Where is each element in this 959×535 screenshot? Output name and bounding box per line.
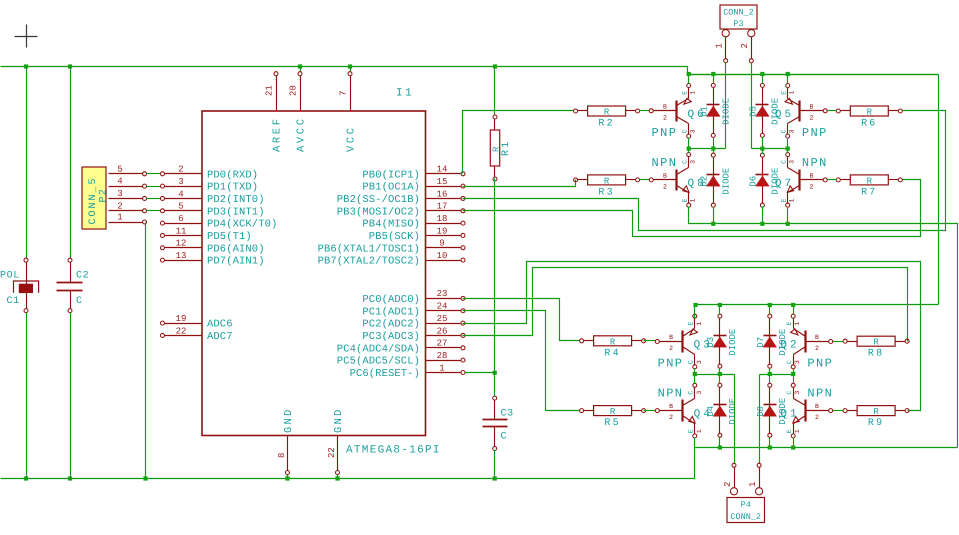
svg-text:3: 3	[690, 160, 697, 164]
svg-text:PB0(ICP1): PB0(ICP1)	[362, 169, 420, 181]
pin 13 of I1 (PD7(AIN1))	[161, 251, 265, 268]
resistor R1	[490, 115, 512, 181]
pin 23 of I1 (PC0(ADC0))	[362, 289, 465, 306]
junction VCC rail at R1	[493, 64, 497, 68]
svg-text:AVCC: AVCC	[296, 116, 308, 152]
svg-text:26: 26	[437, 326, 448, 336]
svg-text:R: R	[610, 337, 616, 347]
wire VCC to R1	[494, 67, 496, 115]
connector P3 (CONN_2)	[720, 5, 757, 29]
svg-text:R: R	[604, 176, 610, 186]
svg-text:PC3(ADC3): PC3(ADC3)	[362, 331, 420, 343]
svg-text:6: 6	[178, 214, 183, 224]
junction lower top rail D7	[768, 303, 772, 307]
diode D8	[756, 383, 788, 437]
junction bottom rail Q7	[786, 222, 790, 226]
svg-text:2: 2	[669, 414, 673, 421]
svg-text:NPN: NPN	[658, 387, 684, 401]
svg-text:13: 13	[176, 251, 187, 261]
wire lower mid rail right (node OUT-D)	[760, 374, 794, 376]
svg-text:3: 3	[117, 189, 122, 199]
svg-text:D2: D2	[699, 176, 709, 187]
pin 22 of I1 (ADC7)	[161, 326, 233, 343]
svg-text:PB6(XTAL1/TOSC1): PB6(XTAL1/TOSC1)	[318, 243, 420, 255]
svg-text:POL: POL	[0, 271, 20, 282]
svg-text:C2: C2	[76, 271, 89, 282]
wire C1 column	[26, 67, 28, 259]
svg-text:19: 19	[176, 314, 187, 324]
svg-text:R: R	[491, 146, 501, 152]
pin 28 of I1 (PC5(ADC5/SCL))	[337, 351, 465, 368]
svg-text:1: 1	[439, 363, 444, 373]
svg-text:22: 22	[176, 326, 187, 336]
svg-text:B: B	[669, 334, 673, 341]
wire D5 top stub	[762, 75, 764, 84]
junction R1/RESET	[493, 371, 497, 375]
svg-text:2: 2	[663, 114, 667, 121]
pin 24 of I1 (PC1(ADC1))	[362, 302, 465, 319]
svg-text:R: R	[873, 407, 879, 417]
svg-text:1: 1	[690, 91, 697, 95]
pin 5 of I1 (PD3(INT1))	[161, 202, 265, 219]
resistor R2	[574, 106, 640, 130]
svg-text:C: C	[688, 360, 695, 364]
svg-text:CONN_2: CONN_2	[723, 8, 754, 18]
svg-text:1: 1	[794, 322, 801, 326]
wire R3 to Q8 base	[640, 179, 650, 181]
svg-text:5: 5	[178, 202, 183, 212]
svg-text:B: B	[809, 103, 813, 110]
wire VCC right vertical to lower bridge	[938, 75, 940, 305]
svg-text:4: 4	[117, 177, 122, 187]
svg-text:NPN: NPN	[802, 156, 828, 170]
pin 16 of I1 (PB2(SS-/OC1B))	[337, 189, 465, 206]
pin 3 of P2	[109, 189, 147, 201]
wire Q2 emitter stub	[793, 305, 795, 315]
svg-text:E: E	[688, 322, 695, 326]
wire Q8 collector stub	[688, 149, 690, 153]
svg-text:E: E	[688, 429, 695, 433]
svg-text:1: 1	[690, 199, 697, 203]
svg-text:1: 1	[789, 199, 796, 203]
junction top rail Q6	[687, 72, 691, 76]
svg-text:R7: R7	[861, 187, 877, 198]
wire Q2 collector stub	[793, 369, 795, 375]
junction lower top rail Q2	[791, 303, 795, 307]
wire PC2 to R9 (long)	[463, 262, 921, 411]
wire PC3 to R8 (long)	[463, 268, 908, 342]
junction GND at P2 pin1 wire	[143, 476, 147, 480]
wire D1-D2 stubs	[713, 138, 715, 154]
pin 19 of I1 (PB5(SCK))	[369, 226, 465, 243]
svg-text:7: 7	[339, 91, 349, 96]
svg-text:R6: R6	[861, 119, 877, 130]
svg-text:1: 1	[117, 213, 122, 223]
junction lower bottom rail D4	[718, 445, 722, 449]
svg-text:R8: R8	[868, 349, 884, 360]
svg-text:DIODE: DIODE	[721, 168, 731, 195]
svg-text:CONN_2: CONN_2	[730, 512, 761, 522]
pin 20 of I1 (AVCC)	[289, 72, 308, 152]
svg-text:28: 28	[437, 351, 448, 361]
op-amp U1 IC I1 ATMEGA8-16PI body	[202, 88, 441, 457]
transistor Q5 (PNP)	[775, 84, 828, 140]
svg-text:DIODE: DIODE	[770, 98, 780, 125]
wire PB1 to R3	[463, 180, 576, 187]
pin 1 of I1 (PC6(RESET-))	[350, 363, 465, 380]
wire R9 to Q1 base	[833, 410, 844, 412]
wire upper mid rail left (node OUT-A)	[688, 148, 726, 150]
svg-text:DIODE: DIODE	[728, 329, 738, 356]
svg-text:PD5(T1): PD5(T1)	[207, 231, 252, 243]
pin 1 of P3	[715, 30, 730, 63]
pin 2 of P4	[723, 463, 738, 495]
svg-text:D7: D7	[756, 337, 766, 348]
wire VCC top rail	[1, 67, 939, 75]
wire lower bridge top rail	[695, 305, 939, 319]
svg-text:4: 4	[178, 189, 183, 199]
wire GND bottom rail	[1, 448, 695, 479]
pin 2 of P2	[109, 201, 147, 213]
wire R5 to Q4 base	[644, 410, 656, 412]
wire P2 pin1 to GND	[145, 223, 147, 479]
pin 8 of I1 (GND)	[277, 407, 295, 474]
svg-text:D1: D1	[699, 106, 709, 117]
svg-text:2: 2	[815, 414, 819, 421]
pin 6 of I1 (PD4(XCK/T0))	[161, 214, 278, 231]
svg-text:DIODE: DIODE	[778, 329, 788, 356]
wire Q6 emitter stub	[688, 75, 690, 84]
svg-text:2: 2	[809, 114, 813, 121]
junction lower mid rail collectors right	[791, 372, 795, 376]
junction VCC rail at C1	[24, 64, 28, 68]
svg-text:R: R	[873, 338, 879, 348]
svg-text:PB4(MISO): PB4(MISO)	[362, 219, 420, 231]
svg-text:3: 3	[178, 177, 183, 187]
diode D5	[748, 83, 780, 137]
svg-text:21: 21	[265, 85, 275, 96]
svg-text:25: 25	[437, 314, 448, 324]
wire P3 pin1 to OUT-A	[725, 63, 727, 149]
svg-text:3: 3	[794, 360, 801, 364]
wire R1 to RESET net	[494, 179, 496, 397]
svg-text:22: 22	[327, 447, 337, 458]
svg-text:P2: P2	[99, 188, 110, 202]
transistor Q8 (NPN)	[649, 153, 707, 208]
wire Q7 collector stub	[787, 149, 789, 153]
wire D6 bottom stub	[762, 207, 764, 224]
wire D7 top stub	[769, 305, 771, 315]
svg-text:17: 17	[437, 202, 448, 212]
svg-text:R2: R2	[598, 119, 614, 130]
svg-text:PB1(OC1A): PB1(OC1A)	[362, 182, 420, 194]
svg-text:ADC7: ADC7	[207, 331, 233, 343]
wire D1 top stub	[713, 75, 715, 84]
svg-text:12: 12	[176, 239, 187, 249]
pin 9 of I1 (PB6(XTAL1/TOSC1))	[318, 239, 465, 256]
svg-text:16: 16	[437, 189, 448, 199]
pin 18 of I1 (PB4(MISO))	[362, 214, 465, 231]
pin 17 of I1 (PB3(MOSI/OC2))	[337, 202, 465, 219]
svg-text:PD2(INT0): PD2(INT0)	[207, 194, 265, 206]
transistor Q6 (PNP)	[649, 84, 707, 140]
svg-text:3: 3	[696, 391, 703, 395]
pin 11 of I1 (PD5(T1))	[161, 226, 252, 243]
svg-text:D8: D8	[756, 406, 766, 417]
svg-text:23: 23	[437, 289, 448, 299]
wire D3-D4 stubs	[719, 369, 721, 384]
svg-text:R: R	[610, 407, 616, 417]
svg-text:27: 27	[437, 339, 448, 349]
pin 3 of I1 (PD1(TXD))	[161, 177, 259, 194]
svg-text:3: 3	[696, 360, 703, 364]
svg-text:PC6(RESET-): PC6(RESET-)	[350, 368, 420, 380]
svg-text:CONN_5: CONN_5	[88, 176, 99, 224]
wire PB2 to R6 (long)	[463, 111, 946, 231]
pin 5 of P2	[109, 164, 147, 176]
junction lower top rail D3	[718, 303, 722, 307]
svg-text:1: 1	[794, 429, 801, 433]
svg-text:1: 1	[715, 43, 725, 48]
svg-text:PB2(SS-/OC1B): PB2(SS-/OC1B)	[337, 194, 420, 206]
svg-text:PC0(ADC0): PC0(ADC0)	[362, 294, 420, 306]
junction lower bottom rail Q1	[791, 445, 795, 449]
pin 12 of I1 (PD6(AIN0))	[161, 239, 265, 256]
diode D6	[748, 153, 780, 207]
wire PB0 to R2	[463, 111, 574, 174]
wire P3 pin2 to OUT-B	[751, 63, 753, 149]
wire lower mid rail left (node OUT-C)	[695, 375, 735, 464]
svg-text:11: 11	[176, 226, 187, 236]
wire D3 top stub	[719, 305, 721, 315]
svg-text:2: 2	[178, 165, 183, 175]
svg-text:18: 18	[437, 214, 448, 224]
wire PC0 to R4	[463, 299, 580, 341]
svg-text:PNP: PNP	[658, 357, 684, 371]
svg-text:PC2(ADC2): PC2(ADC2)	[362, 319, 420, 331]
svg-text:PD7(AIN1): PD7(AIN1)	[207, 256, 265, 268]
pin 2 of P3	[740, 30, 755, 63]
pin 21 of I1 (AREF)	[265, 72, 284, 152]
diode D2	[699, 153, 731, 207]
junction top rail D5	[760, 72, 764, 76]
transistor Q1 (NPN)	[780, 383, 833, 438]
wire Q5 collector stub	[787, 138, 789, 149]
svg-text:PD1(TXD): PD1(TXD)	[207, 182, 258, 194]
wire PB3 to R7 (long)	[463, 180, 921, 237]
pin 26 of I1 (PC3(ADC3))	[362, 326, 465, 343]
svg-text:C: C	[781, 160, 788, 164]
svg-text:PB7(XTAL2/TOSC2): PB7(XTAL2/TOSC2)	[318, 256, 420, 268]
resistor R3	[574, 175, 640, 199]
svg-text:E: E	[781, 91, 788, 95]
svg-text:19: 19	[437, 226, 448, 236]
svg-text:D6: D6	[748, 176, 758, 187]
pin 27 of I1 (PC4(ADC4/SDA))	[337, 339, 465, 356]
svg-text:1: 1	[696, 429, 703, 433]
svg-text:E: E	[781, 199, 788, 203]
diode D7	[756, 314, 788, 368]
svg-text:C: C	[76, 296, 83, 307]
svg-text:PB5(SCK): PB5(SCK)	[369, 231, 420, 243]
junction VCC rail at AVCC	[298, 64, 302, 68]
sheet origin crosshair	[15, 25, 38, 48]
svg-text:VCC: VCC	[346, 125, 358, 152]
svg-text:E: E	[786, 429, 793, 433]
junction VCC rail at C2	[68, 64, 72, 68]
transistor Q2 (PNP)	[780, 314, 833, 370]
svg-text:B: B	[663, 172, 667, 179]
svg-text:PC4(ADC4/SDA): PC4(ADC4/SDA)	[337, 343, 420, 355]
svg-text:D5: D5	[748, 106, 758, 117]
svg-text:10: 10	[437, 251, 448, 261]
transistor Q3 (PNP)	[655, 314, 713, 370]
svg-text:1: 1	[789, 91, 796, 95]
wire Q6 collector stub	[688, 138, 690, 149]
wire P2 pin3 to IC	[147, 198, 161, 200]
svg-text:2: 2	[815, 345, 819, 352]
wire R6 to Q5 base	[828, 110, 837, 112]
svg-text:14: 14	[437, 165, 448, 175]
resistor R5	[580, 406, 646, 430]
pin 25 of I1 (PC2(ADC2))	[362, 314, 465, 331]
wire D2 bottom stub	[713, 207, 715, 224]
junction GND at C2	[68, 476, 72, 480]
svg-text:1: 1	[748, 482, 758, 487]
diode D3	[706, 314, 738, 368]
svg-text:DIODE: DIODE	[778, 398, 788, 425]
svg-text:PB3(MOSI/OC2): PB3(MOSI/OC2)	[337, 206, 420, 218]
svg-text:DIODE: DIODE	[770, 168, 780, 195]
wire C3 to GND	[494, 451, 496, 479]
junction lower mid rail D3/D4	[718, 372, 722, 376]
svg-text:C1: C1	[7, 296, 20, 307]
wire upper mid rail right (node OUT-B)	[752, 148, 788, 150]
wire GND pin 22 stub	[337, 475, 339, 479]
wire R8 to Q2 base	[833, 341, 844, 343]
wire Q4 collector stub	[694, 375, 696, 384]
capacitor C1 (POL)	[0, 258, 39, 312]
svg-text:PC1(ADC1): PC1(ADC1)	[362, 306, 420, 318]
junction lower bottom rail D8	[768, 445, 772, 449]
svg-text:C: C	[781, 129, 788, 133]
junction top rail D1	[711, 72, 715, 76]
junction mid rail left collectors	[687, 147, 691, 151]
wire Q7 emitter stub	[787, 207, 789, 224]
svg-text:C: C	[688, 391, 695, 395]
pin 7 of I1 (VCC)	[339, 72, 358, 152]
junction mid rail D5/D6	[760, 147, 764, 151]
junction lower top rail Q3 emitter	[693, 303, 697, 307]
wire upper bridge top rail	[688, 74, 939, 76]
wire P2 pin5 to IC	[147, 173, 161, 175]
svg-text:PD0(RXD): PD0(RXD)	[207, 169, 258, 181]
svg-text:R5: R5	[604, 418, 620, 429]
wire lower bridge bottom rail	[695, 438, 958, 448]
resistor R9	[843, 406, 909, 430]
svg-text:PD6(AIN0): PD6(AIN0)	[207, 243, 265, 255]
svg-text:3: 3	[690, 129, 697, 133]
transistor Q4 (NPN)	[655, 383, 713, 438]
transistor Q7 (NPN)	[775, 153, 828, 208]
wire P4 pin1 riser	[759, 375, 761, 464]
svg-text:D4: D4	[706, 406, 716, 417]
svg-text:3: 3	[789, 160, 796, 164]
capacitor C3	[483, 396, 514, 450]
svg-text:E: E	[682, 199, 689, 203]
wire Q1 collector stub	[793, 375, 795, 384]
pin 10 of I1 (PB7(XTAL2/TOSC2))	[318, 251, 465, 268]
svg-text:2: 2	[663, 183, 667, 190]
wire PC1 to R5	[463, 311, 580, 411]
svg-text:3: 3	[794, 391, 801, 395]
svg-text:P4: P4	[741, 500, 751, 510]
svg-text:9: 9	[439, 239, 444, 249]
wire upper bridge bottom rail	[689, 207, 958, 448]
svg-text:NPN: NPN	[652, 156, 678, 170]
wire R4 to Q3 base	[644, 340, 656, 342]
svg-text:5: 5	[117, 164, 122, 174]
svg-text:R9: R9	[868, 418, 884, 429]
junction top rail Q5	[786, 72, 790, 76]
svg-text:2: 2	[809, 183, 813, 190]
wire P2 pin4 to IC	[147, 186, 161, 188]
svg-text:DIODE: DIODE	[728, 398, 738, 425]
svg-text:PNP: PNP	[652, 126, 678, 140]
wire R7 to Q7 base	[828, 179, 837, 181]
svg-text:ADC6: ADC6	[207, 319, 233, 331]
svg-text:I1: I1	[396, 88, 414, 100]
svg-text:R: R	[867, 176, 873, 186]
junction GND at C1	[24, 476, 28, 480]
svg-text:15: 15	[437, 177, 448, 187]
wire C2 column	[70, 67, 72, 259]
junction mid rail right collectors	[786, 147, 790, 151]
pin 1 of P4	[748, 463, 763, 495]
pin 14 of I1 (PB0(ICP1))	[362, 165, 465, 182]
svg-text:DIODE: DIODE	[721, 98, 731, 125]
resistor R7	[836, 175, 902, 199]
diode D1	[699, 83, 731, 137]
svg-text:D3: D3	[706, 337, 716, 348]
wire P2 pin2 to IC	[147, 210, 161, 212]
resistor R4	[580, 336, 646, 360]
svg-text:E: E	[786, 322, 793, 326]
svg-text:B: B	[663, 103, 667, 110]
diode D4	[706, 383, 738, 437]
svg-text:PD3(INT1): PD3(INT1)	[207, 206, 265, 218]
svg-text:2: 2	[723, 482, 733, 487]
svg-text:P3: P3	[733, 19, 743, 29]
svg-text:PNP: PNP	[802, 126, 828, 140]
junction bottom rail D2	[711, 222, 715, 226]
svg-text:PC5(ADC5/SCL): PC5(ADC5/SCL)	[337, 356, 420, 368]
wire VCC stub to rail	[350, 67, 352, 72]
pin 2 of I1 (PD0(RXD))	[161, 165, 259, 182]
pin 4 of I1 (PD2(INT0))	[161, 189, 265, 206]
wire Q3 collector stub	[694, 369, 696, 375]
svg-text:20: 20	[289, 85, 299, 96]
connector P2 (CONN_5)	[82, 167, 110, 229]
svg-text:1: 1	[696, 322, 703, 326]
svg-text:AREF: AREF	[272, 116, 284, 152]
svg-text:R1: R1	[501, 140, 512, 156]
pin 15 of I1 (PB1(OC1A))	[362, 177, 465, 194]
wire Q5 emitter stub	[787, 75, 789, 84]
wire Q1 emitter stub	[793, 438, 795, 448]
svg-text:C: C	[786, 360, 793, 364]
svg-text:B: B	[815, 334, 819, 341]
